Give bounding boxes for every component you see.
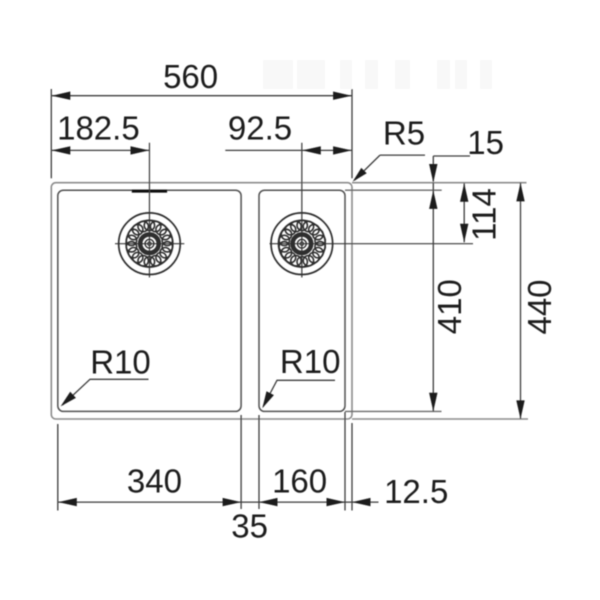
faint watermark bars <box>263 60 492 89</box>
bottom extension lines <box>58 412 379 511</box>
centerline bowl 1 vertical <box>148 143 150 278</box>
bowl top edge extension right <box>345 189 442 191</box>
dimension 560 <box>51 89 352 178</box>
bowl 2 outline <box>259 190 345 411</box>
svg-text:440: 440 <box>521 279 558 334</box>
svg-text:15: 15 <box>467 124 504 161</box>
svg-text:340: 340 <box>127 462 182 499</box>
dimension 410 <box>432 190 434 411</box>
dimension 160 arrows <box>259 498 278 506</box>
dimension 182.5 <box>52 149 149 151</box>
svg-text:410: 410 <box>431 279 468 334</box>
centerline bowl 2 horizontal extended to 114 dim <box>270 243 474 245</box>
svg-text:R10: R10 <box>280 343 341 380</box>
svg-text:92.5: 92.5 <box>228 109 292 146</box>
sink top edge extension right <box>352 182 527 184</box>
bowl 1 outline <box>58 190 241 411</box>
drain strainer bowl 1 <box>119 213 181 275</box>
centerline bowl 2 vertical <box>301 143 303 278</box>
dimension 340 arrows <box>58 498 77 506</box>
svg-text:35: 35 <box>231 507 268 544</box>
overflow slot mark bowl 1 <box>132 190 167 193</box>
svg-text:160: 160 <box>272 462 327 499</box>
svg-text:12.5: 12.5 <box>384 473 448 510</box>
svg-text:182.5: 182.5 <box>57 109 140 146</box>
bottom dimension line <box>58 501 378 503</box>
sink bottom edge extension right <box>352 418 528 420</box>
dimension 114 <box>463 183 465 242</box>
dimension 440 <box>520 183 522 419</box>
dimension 12.5 <box>352 498 371 506</box>
sink outer rim outline <box>51 183 528 419</box>
centerline bowl 1 horizontal <box>115 243 184 245</box>
svg-text:114: 114 <box>466 188 503 241</box>
drain strainer bowl 2 <box>271 213 333 275</box>
svg-text:R10: R10 <box>90 343 151 380</box>
svg-text:560: 560 <box>163 58 218 95</box>
dimension 92.5 <box>225 149 351 151</box>
svg-text:R5: R5 <box>383 115 425 152</box>
bowl bottom edge extension right <box>345 410 442 412</box>
